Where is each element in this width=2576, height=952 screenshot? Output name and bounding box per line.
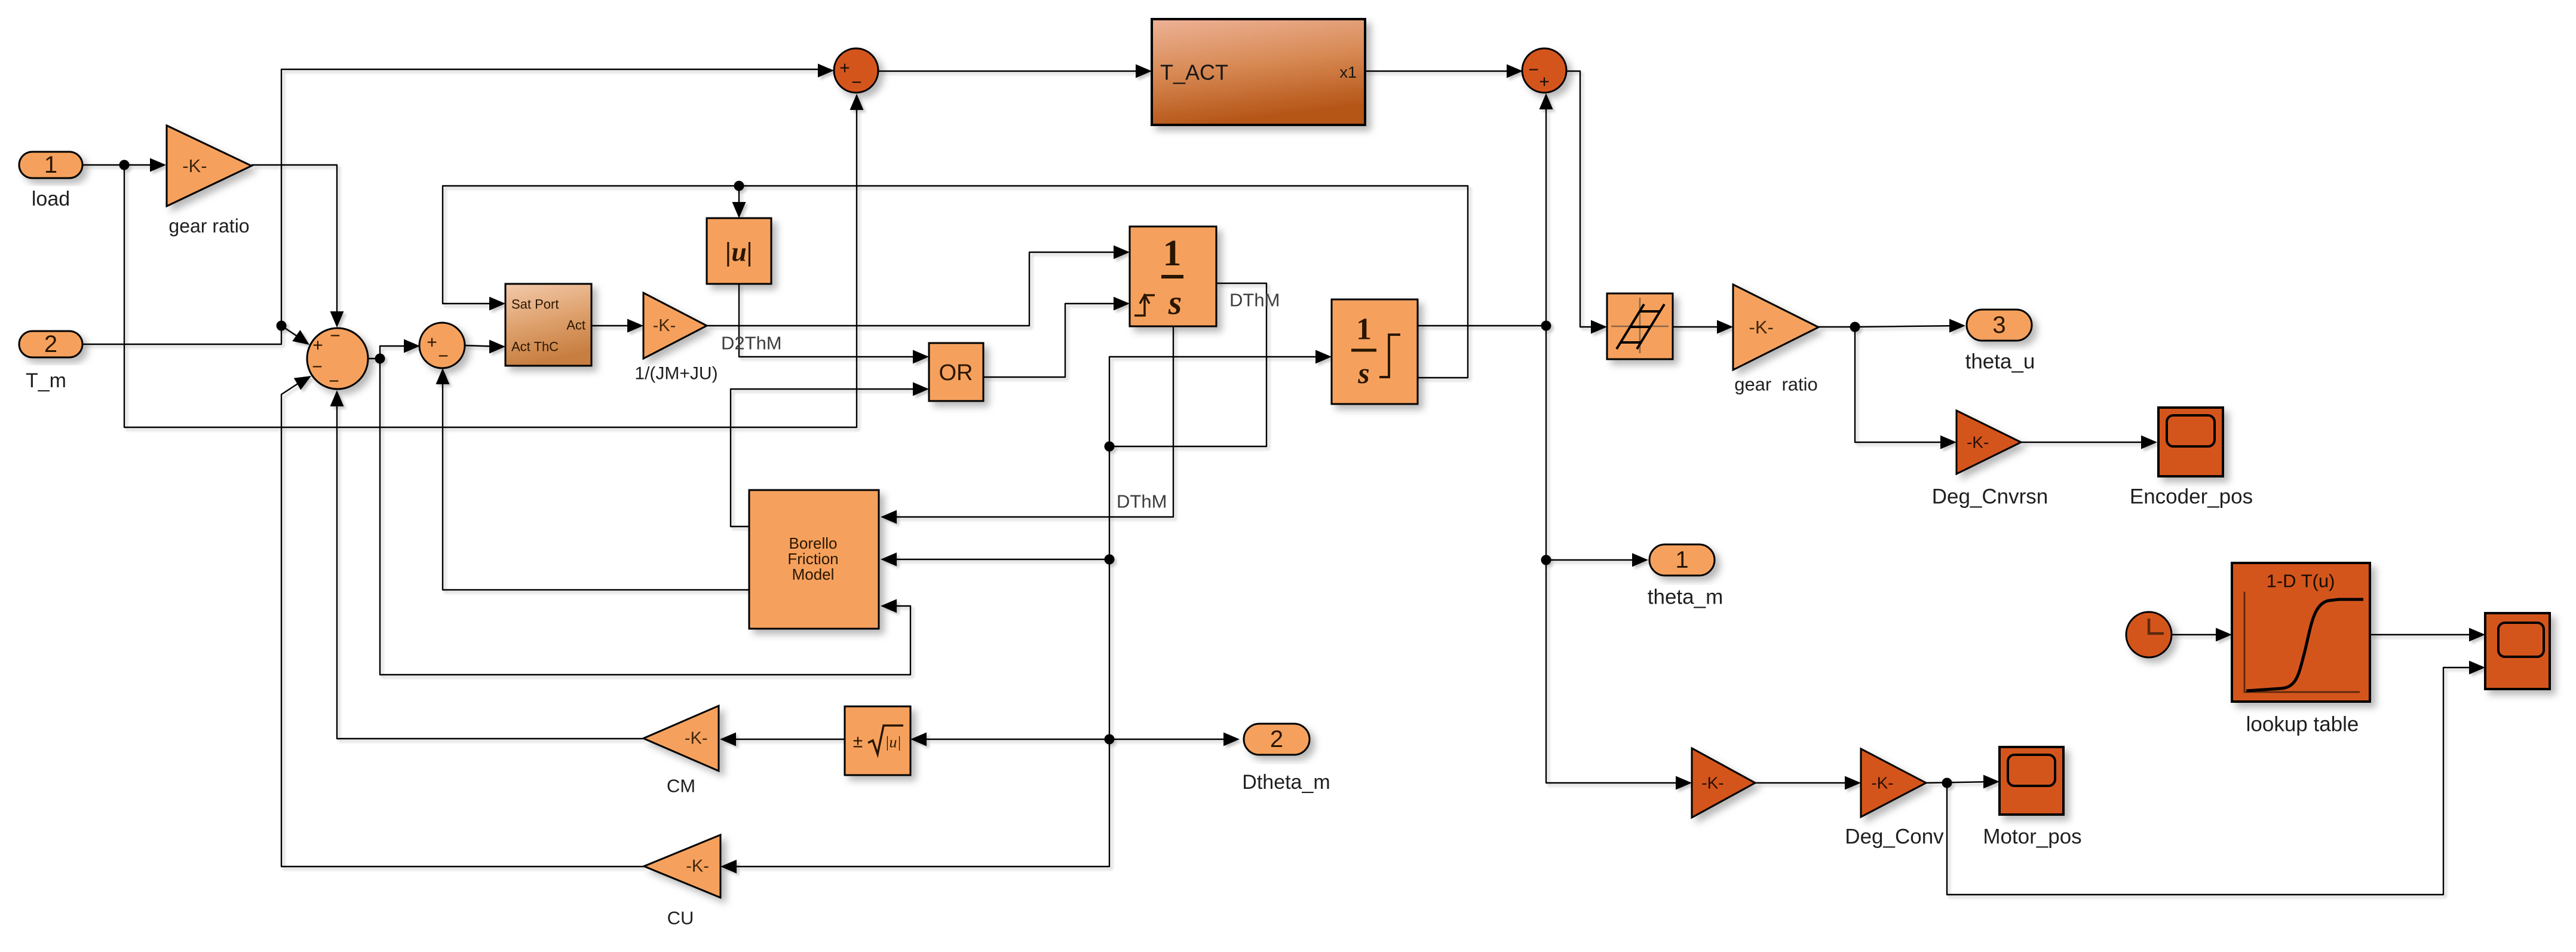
wire: sqrt output to CM gain input bbox=[723, 739, 845, 740]
svg-text:-K-: -K- bbox=[1749, 317, 1774, 338]
svg-text:T_m: T_m bbox=[26, 369, 66, 392]
wire: Deg_Conv to Motor_pos scope bbox=[1926, 782, 1995, 783]
scope: Encoder_pos bbox=[2158, 408, 2223, 476]
svg-text:+: + bbox=[427, 333, 437, 353]
svg-text:-K-: -K- bbox=[182, 155, 207, 176]
svg-text:OR: OR bbox=[939, 360, 973, 385]
block: abs |u| bbox=[707, 218, 771, 284]
wire: Act output to 1/(JM+JU) gain bbox=[591, 325, 639, 326]
wire: Borello output 1 to OR input 2 bbox=[731, 389, 925, 526]
block: integrator 1/s with saturation limit bbox=[1332, 299, 1418, 404]
svg-text:−: − bbox=[851, 73, 862, 93]
sum: small sum (torque - friction) bbox=[419, 323, 465, 368]
svg-text:−: − bbox=[329, 372, 339, 391]
subsystem: Sat Port / Act / Act ThC bbox=[505, 284, 591, 366]
svg-text:Motor_pos: Motor_pos bbox=[1983, 825, 2081, 849]
junction: theta to theta_m port bbox=[1541, 555, 1551, 565]
svg-text:theta_u: theta_u bbox=[1965, 350, 2035, 374]
svg-text:-K-: -K- bbox=[1967, 433, 1989, 452]
block: logical OR bbox=[929, 343, 983, 401]
wire: gain to Deg_Conv gain bbox=[1755, 782, 1857, 783]
wire: DThM to big integrator input bbox=[1109, 357, 1327, 446]
gain: motor position scale bbox=[1692, 748, 1755, 818]
wire: CM output feedback to big sum bottom minus input bbox=[337, 394, 643, 739]
gain: gear ratio (top left) bbox=[167, 125, 252, 206]
svg-text:gear ratio: gear ratio bbox=[168, 215, 249, 237]
svg-text:Encoder_pos: Encoder_pos bbox=[2130, 485, 2253, 509]
junction: theta branch bbox=[1541, 321, 1551, 331]
gain: CM (left pointing) bbox=[643, 706, 719, 771]
wire: theta down to motor position chain bbox=[1546, 326, 1687, 783]
svg-text:−: − bbox=[330, 326, 341, 346]
svg-text:Deg_Conv: Deg_Conv bbox=[1845, 825, 1944, 849]
subsystem: Borello Friction Model bbox=[749, 490, 879, 629]
svg-text:3: 3 bbox=[1992, 312, 2005, 338]
wire: load feedback down to top sum bottom input bbox=[124, 97, 857, 427]
gain: CU (left pointing) bbox=[644, 835, 720, 898]
svg-text:s: s bbox=[1168, 283, 1182, 322]
wire: CU output feedback to big sum lower-left minus input bbox=[281, 383, 644, 867]
svg-text:1: 1 bbox=[44, 152, 57, 178]
inport 2 T_m bbox=[19, 331, 82, 357]
wire: branch down into abs block bbox=[738, 186, 740, 215]
junction: DThM main branch bbox=[1105, 442, 1115, 452]
wire: Deg_Cnvrsn to Encoder_pos scope bbox=[2021, 442, 2153, 443]
svg-text:2: 2 bbox=[44, 331, 57, 357]
wire: D2ThM acceleration to integrator input bbox=[707, 252, 1126, 326]
svg-text:1: 1 bbox=[1163, 233, 1182, 274]
wire: right sum output to backlash bbox=[1566, 71, 1602, 327]
block: 1-D lookup table bbox=[2232, 563, 2370, 702]
svg-text:Act: Act bbox=[566, 318, 585, 333]
svg-text:-K-: -K- bbox=[653, 316, 676, 335]
wire: backlash output to gear ratio gain bbox=[1673, 326, 1729, 327]
scope: lookup/motor compare bbox=[2485, 613, 2550, 689]
svg-text:1: 1 bbox=[1675, 547, 1688, 573]
wire: DThM down 2 bbox=[1109, 559, 1110, 739]
svg-text:|u|: |u| bbox=[725, 237, 753, 267]
block: integrator 1/s with reset (DThM) bbox=[1130, 226, 1216, 326]
svg-text:+: + bbox=[839, 59, 850, 78]
wire: big integrator saturation output feedback to Sat Port input bbox=[443, 186, 1468, 378]
wire: Borello friction output to small sum bottom minus input bbox=[443, 372, 749, 590]
wire: lookup table to scope input 1 bbox=[2370, 634, 2480, 635]
wire: motor position to scope input 2 bbox=[1947, 668, 2480, 895]
svg-text:D2ThM: D2ThM bbox=[721, 333, 782, 354]
outport 1 theta_m bbox=[1649, 544, 1715, 576]
wire: gear ratio output down to big sum top minus input bbox=[252, 165, 337, 324]
sum: top sum (T_m - load) bbox=[834, 48, 878, 93]
wire: DThM to sqrt block bbox=[914, 739, 1109, 740]
gain: Deg_Cnvrsn bbox=[1956, 411, 2021, 474]
svg-text:-K-: -K- bbox=[1871, 774, 1893, 792]
junction: DThM to sqrt and Dtheta_m port bbox=[1105, 734, 1115, 745]
svg-text:load: load bbox=[32, 188, 70, 210]
wire: abs output to OR input 1 bbox=[739, 284, 925, 357]
svg-text:+: + bbox=[312, 336, 323, 356]
wire: OR output to integrator reset input bbox=[983, 304, 1126, 377]
wire: T_m port up to top sum left input bbox=[82, 69, 830, 344]
svg-text:−: − bbox=[1528, 60, 1539, 80]
svg-text:T_ACT: T_ACT bbox=[1160, 60, 1228, 85]
gain: Deg_Conv bbox=[1861, 749, 1926, 817]
junction: theta_u branch bbox=[1850, 322, 1860, 332]
svg-text:1/(JM+JU): 1/(JM+JU) bbox=[634, 364, 717, 384]
wire: load port to gear ratio gain bbox=[82, 164, 162, 166]
svg-text:lookup table: lookup table bbox=[2246, 713, 2359, 736]
svg-text:1-D T(u): 1-D T(u) bbox=[2267, 571, 2335, 592]
gain: gear ratio (right) bbox=[1733, 284, 1818, 370]
wire: big integrator output theta bbox=[1418, 325, 1546, 326]
wire: top sum output to T_ACT bbox=[878, 71, 1147, 72]
wire: DThM to Borello input 2 bbox=[884, 559, 1109, 560]
outport 3 theta_u bbox=[1967, 310, 2032, 341]
svg-text:-K-: -K- bbox=[686, 857, 709, 876]
svg-text:theta_m: theta_m bbox=[1648, 586, 1723, 609]
svg-text:1: 1 bbox=[1356, 313, 1372, 347]
wire: big sum output to small sum bbox=[380, 346, 416, 359]
wire: big sum output bbox=[369, 358, 380, 359]
wire: big sum output down to Borello input 3 bbox=[380, 359, 910, 675]
svg-text:DThM: DThM bbox=[1229, 290, 1280, 311]
wire: DThM down to CU gain input bbox=[724, 739, 1109, 867]
junction: big sum output branch bbox=[375, 354, 385, 364]
wire: small sum output to Act ThC input bbox=[464, 345, 502, 347]
junction: saturation signal branch to abs block bbox=[734, 181, 744, 191]
svg-text:x1: x1 bbox=[1339, 63, 1357, 81]
outport 2 Dtheta_m bbox=[1244, 724, 1310, 755]
svg-text:Deg_Cnvrsn: Deg_Cnvrsn bbox=[1932, 485, 2048, 509]
svg-text:Model: Model bbox=[792, 565, 835, 583]
svg-text:-K-: -K- bbox=[685, 729, 708, 748]
svg-text:s: s bbox=[1357, 356, 1369, 390]
block: signed sqrt of abs(u) bbox=[845, 706, 910, 775]
junction: T_m branch to big sum bbox=[277, 321, 287, 331]
sum: big sum junction (T_m + gear - CU - CM) bbox=[307, 326, 368, 391]
svg-text:Dtheta_m: Dtheta_m bbox=[1242, 771, 1330, 794]
svg-text:|u|: |u| bbox=[885, 734, 901, 751]
junction: DThM to Borello input 2 bbox=[1105, 555, 1115, 565]
gain: 1/(JM+JU) bbox=[643, 293, 707, 359]
svg-text:2: 2 bbox=[1270, 726, 1283, 752]
inport 1 load bbox=[19, 152, 82, 178]
wire: gear ratio output bbox=[1818, 326, 1855, 327]
svg-text:±: ± bbox=[853, 732, 863, 752]
wire: DThM to Dtheta_m port bbox=[1109, 739, 1235, 740]
sum: right sum (theta - T_ACT) bbox=[1522, 48, 1566, 93]
block: backlash bbox=[1607, 293, 1673, 359]
wire: down to Deg_Cnvrsn gain bbox=[1855, 327, 1952, 442]
wire: T_ACT x1 output to right sum minus input bbox=[1365, 71, 1519, 72]
source: clock bbox=[2126, 612, 2172, 657]
wire: clock to lookup table bbox=[2172, 634, 2228, 635]
wire: integrator DThM output wrap-around bbox=[1109, 283, 1266, 446]
svg-text:CM: CM bbox=[667, 776, 695, 797]
svg-text:-K-: -K- bbox=[1701, 774, 1724, 792]
svg-text:DThM: DThM bbox=[1117, 491, 1167, 512]
svg-text:CU: CU bbox=[667, 908, 694, 929]
junction: load branch bbox=[119, 160, 130, 170]
svg-text:−: − bbox=[312, 357, 323, 377]
wire: to theta_u port bbox=[1855, 326, 1961, 327]
subsystem: T_ACT actuator bbox=[1152, 19, 1365, 125]
wire: DThM down bbox=[1109, 446, 1110, 559]
wire: T_m diagonal into big sum plus input bbox=[281, 326, 298, 336]
svg-text:Act ThC: Act ThC bbox=[511, 339, 559, 354]
scope: Motor_pos bbox=[2000, 747, 2063, 815]
svg-text:Sat Port: Sat Port bbox=[511, 297, 559, 312]
wire: integrator lower port to Borello input 1 bbox=[884, 326, 1173, 517]
wire: theta to theta_m port bbox=[1546, 559, 1644, 561]
svg-text:+: + bbox=[1539, 72, 1550, 92]
svg-text:−: − bbox=[438, 347, 449, 366]
junction: motor position branch bbox=[1942, 778, 1952, 788]
wire: theta up to right sum plus input bbox=[1545, 97, 1547, 326]
svg-text:gear ratio: gear ratio bbox=[1734, 374, 1818, 395]
